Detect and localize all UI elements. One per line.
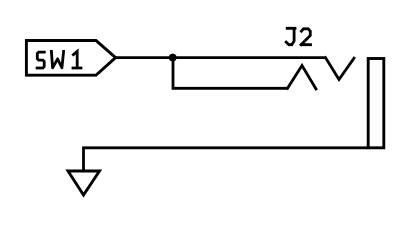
wire: junction down and right to ring contact [173,58,288,89]
jack J2 ring switch contact (peak) [288,66,317,89]
wire: SW1 tip to jack tip contact [116,56,326,59]
jack J2 tip switch contact (vee) [326,58,355,80]
jack J2 body sleeve [368,59,384,148]
net port flag SW1 [26,41,115,76]
label J2 [286,28,310,44]
junction dot [169,54,177,62]
wire: sleeve to ground [84,148,369,171]
ground symbol [68,171,100,195]
label SW1 [37,51,81,68]
